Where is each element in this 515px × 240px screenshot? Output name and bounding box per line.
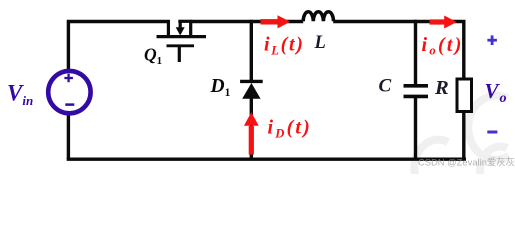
svg-text:L: L: [314, 33, 326, 53]
svg-text:io(t): io(t): [422, 34, 464, 58]
svg-text:C: C: [379, 76, 392, 97]
svg-text:Vo: Vo: [485, 79, 508, 106]
svg-text:Q1: Q1: [144, 45, 162, 68]
svg-text:D1: D1: [210, 76, 231, 99]
svg-text:R: R: [434, 77, 449, 99]
svg-text:Vin: Vin: [7, 81, 33, 108]
svg-text:iD(t): iD(t): [268, 117, 313, 141]
svg-text:iL(t): iL(t): [264, 34, 305, 58]
svg-text:CSDN @Zevalin爱灰灰: CSDN @Zevalin爱灰灰: [418, 157, 515, 168]
